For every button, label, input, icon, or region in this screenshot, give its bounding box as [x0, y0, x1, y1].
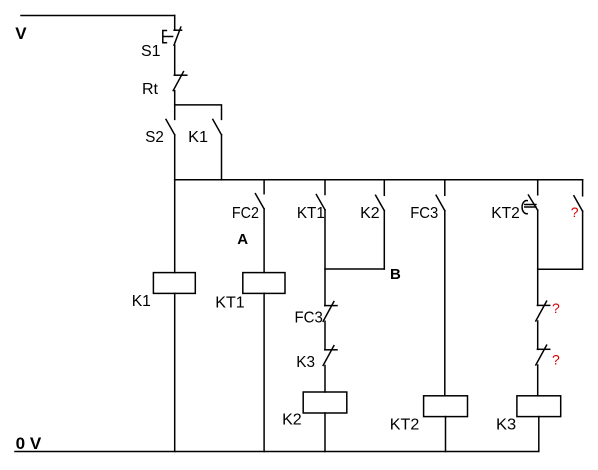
switch S2 (NO) — [166, 119, 175, 134]
wire bus down to K1 coil — [174, 180, 176, 273]
svg-text:K1: K1 — [188, 129, 208, 146]
wire bus to K2 contact — [383, 180, 385, 196]
coil KT2 — [424, 396, 468, 417]
svg-text:B: B — [390, 266, 401, 283]
wire to K3 coil — [537, 365, 539, 396]
contact FC3 (NC) — [323, 302, 337, 322]
contact K2 (NO) — [376, 195, 385, 210]
wire K3 coil to bottom rail — [538, 417, 540, 452]
wire Rt to junction — [174, 91, 176, 120]
coil K3 — [517, 396, 561, 417]
wire ? contact down and across to KT2 branch — [538, 211, 583, 269]
contact FC3 (NO) — [436, 195, 445, 210]
svg-text:A: A — [237, 231, 248, 248]
svg-text:K2: K2 — [282, 411, 302, 428]
thermal contact Rt (NC) — [173, 72, 187, 91]
svg-text:?: ? — [552, 352, 560, 368]
wire bus to FC3 contact — [444, 180, 446, 196]
wire bus to KT2 contact — [537, 180, 539, 195]
contact ? (NO) — [574, 196, 583, 211]
contact ?1 (NC) — [536, 301, 550, 321]
wire junction branch to K1 contact — [175, 105, 222, 120]
svg-text:0 V: 0 V — [16, 434, 42, 453]
wire KT1 coil to bottom rail — [263, 293, 265, 451]
svg-text:FC3: FC3 — [410, 205, 438, 222]
svg-text:S1: S1 — [141, 43, 161, 60]
wire K1 contact to bus — [221, 135, 223, 180]
contact K3 (NC) — [323, 346, 337, 366]
svg-text:V: V — [15, 24, 27, 43]
wire KT1 contact down to node B — [324, 210, 326, 306]
wire K2 contact down to node B — [383, 211, 385, 269]
wire FC3 contact to KT2 coil — [444, 211, 446, 396]
wire top supply rail V — [21, 15, 175, 17]
coil K1 — [153, 273, 195, 294]
svg-text:FC2: FC2 — [232, 205, 259, 222]
svg-text:K1: K1 — [132, 293, 151, 310]
contact KT1 (NO) — [316, 195, 325, 210]
wire horizontal bus — [175, 179, 583, 181]
contact FC2 (NO) — [255, 194, 264, 209]
wire K2 coil to bottom rail — [324, 413, 326, 452]
svg-text:KT1: KT1 — [215, 295, 245, 312]
wire from rail down to S1 — [174, 16, 176, 31]
wire S2 to bus — [174, 135, 176, 180]
wire node B horizontal — [325, 268, 384, 270]
svg-text:FC3: FC3 — [295, 309, 323, 326]
wire bus to unknown contact — [582, 180, 584, 196]
wire bus to FC2 contact — [263, 180, 265, 194]
wire KT2 contact down — [537, 210, 539, 305]
svg-text:S2: S2 — [145, 129, 164, 146]
svg-text:KT1: KT1 — [297, 205, 325, 222]
wire S1 to Rt — [174, 45, 176, 75]
wire bus to KT1 contact — [324, 180, 326, 195]
svg-text:K2: K2 — [360, 205, 380, 222]
wire bottom rail 0V — [15, 451, 538, 453]
svg-text:KT2: KT2 — [390, 416, 420, 433]
svg-text:?: ? — [571, 204, 579, 220]
coil KT1 — [243, 273, 285, 294]
svg-text:K3: K3 — [496, 416, 516, 433]
contact K1 (NO) — [213, 119, 222, 134]
contact KT2 (NO timed, delay symbol) — [522, 195, 538, 214]
pushbutton S1 (NC) — [163, 27, 182, 45]
wire KT2 coil to bottom rail — [445, 417, 447, 452]
wire FC3 to K3 contact — [324, 321, 326, 350]
coil K2 — [303, 392, 347, 413]
wire K3 contact to K2 coil — [324, 366, 326, 393]
svg-text:Rt: Rt — [142, 81, 159, 98]
wire between NC contacts — [537, 321, 539, 349]
wire FC2 to KT1 coil — [263, 209, 265, 273]
wire K1 coil to bottom rail — [174, 293, 176, 451]
contact ?2 (NC) — [536, 345, 550, 365]
svg-text:KT2: KT2 — [491, 205, 520, 222]
svg-text:K3: K3 — [296, 354, 315, 371]
svg-text:?: ? — [552, 300, 560, 316]
